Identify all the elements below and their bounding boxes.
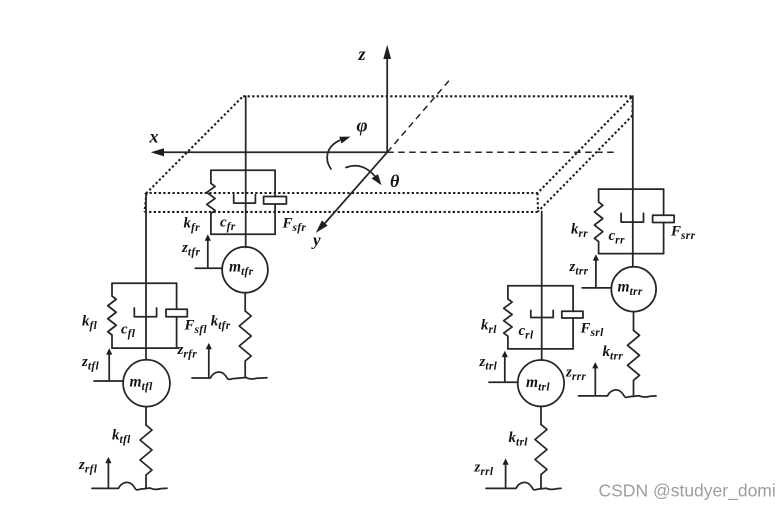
tire spring k_trr xyxy=(628,330,640,396)
strut rod fr xyxy=(245,96,247,247)
svg-text:ktfr: ktfr xyxy=(211,314,231,333)
plate bottom front edge xyxy=(145,211,539,213)
damper c_fl cup xyxy=(134,308,156,317)
bracket bottom bar fl xyxy=(112,347,179,349)
svg-text:Fsrr: Fsrr xyxy=(670,224,696,243)
svg-text:Fsfl: Fsfl xyxy=(184,318,208,337)
svg-text:cfr: cfr xyxy=(220,215,236,234)
svg-text:ztrr: ztrr xyxy=(569,259,589,278)
x axis xyxy=(151,148,387,156)
svg-text:y: y xyxy=(311,231,321,250)
plate right rear corner edge xyxy=(631,96,633,116)
tire rod rl xyxy=(540,407,542,424)
svg-text:ztrl: ztrl xyxy=(479,354,498,373)
mass m_tfr xyxy=(222,247,268,293)
svg-text:cfl: cfl xyxy=(121,322,136,341)
x axis hidden dashed extension xyxy=(387,151,614,153)
road fl xyxy=(92,482,167,489)
plate right bottom slant edge xyxy=(538,116,633,212)
bracket top bar rr xyxy=(599,188,664,190)
svg-text:crl: crl xyxy=(519,323,534,342)
mass m_trr xyxy=(611,267,656,312)
svg-text:CSDN @studyer_domi: CSDN @studyer_domi xyxy=(599,481,776,502)
y axis xyxy=(316,152,387,233)
road fr xyxy=(192,372,267,379)
svg-text:krr: krr xyxy=(571,222,588,241)
z_rrl arrow xyxy=(503,458,509,487)
svg-text:Fsrl: Fsrl xyxy=(580,321,605,340)
svg-text:Fsfr: Fsfr xyxy=(282,216,307,235)
damper c_fr cup xyxy=(234,195,256,203)
svg-text:φ: φ xyxy=(357,116,368,137)
svg-text:ztfr: ztfr xyxy=(181,240,200,259)
bracket bottom bar rr xyxy=(599,253,664,255)
pitch arrow theta xyxy=(346,166,382,186)
tire rod fl xyxy=(145,407,147,425)
plate top face (dotted parallelogram) xyxy=(147,96,633,193)
strut rod rr xyxy=(632,96,634,267)
tire spring k_tfl xyxy=(140,425,152,488)
actuator F_sfl xyxy=(166,283,187,348)
svg-text:ztfl: ztfl xyxy=(81,354,99,373)
svg-text:mtfl: mtfl xyxy=(130,374,154,394)
svg-text:kfr: kfr xyxy=(184,216,201,235)
road rl xyxy=(486,482,561,489)
svg-text:z: z xyxy=(358,44,366,64)
actuator F_sfr xyxy=(264,170,287,234)
actuator F_srr xyxy=(653,189,675,254)
svg-text:θ: θ xyxy=(390,171,400,191)
z_rfl arrow xyxy=(105,457,111,488)
plate left corner edge xyxy=(145,193,147,212)
z_rrr arrow xyxy=(592,362,598,395)
svg-text:krl: krl xyxy=(481,318,497,337)
svg-text:mtfr: mtfr xyxy=(229,259,254,279)
bracket top bar fl xyxy=(112,282,177,284)
svg-text:ktrr: ktrr xyxy=(603,344,624,363)
z_rfr arrow xyxy=(206,343,212,377)
bracket top bar fr xyxy=(211,169,275,171)
tire rod fr xyxy=(244,293,246,311)
svg-text:zrrl: zrrl xyxy=(474,460,494,479)
damper c_rl cup xyxy=(531,310,553,317)
road rr xyxy=(579,390,657,397)
z axis xyxy=(383,45,391,153)
svg-text:mtrr: mtrr xyxy=(618,279,643,299)
bracket bottom bar fr xyxy=(211,233,275,235)
strut rod fl xyxy=(145,193,147,359)
svg-text:ktrl: ktrl xyxy=(509,430,529,449)
svg-text:kfl: kfl xyxy=(82,314,98,333)
bracket top bar rl xyxy=(508,285,573,287)
z_trr arrow xyxy=(582,254,610,288)
svg-text:ktfl: ktfl xyxy=(112,428,131,447)
tire spring k_trl xyxy=(535,425,547,489)
mass m_tfl xyxy=(123,360,170,407)
svg-text:zrfr: zrfr xyxy=(177,342,198,361)
tire spring k_tfr xyxy=(239,311,251,378)
y axis dashed rear part xyxy=(387,80,450,153)
actuator F_srl xyxy=(562,286,583,349)
mass m_trl xyxy=(518,360,564,406)
svg-text:zrrr: zrrr xyxy=(565,365,586,384)
spring k_rr xyxy=(594,189,602,254)
bracket bottom bar rl xyxy=(508,348,573,350)
plate front right corner edge xyxy=(536,193,539,211)
spring k_rl xyxy=(504,286,512,349)
spring k_fr xyxy=(207,170,215,234)
z_tfl arrow xyxy=(94,348,123,381)
svg-text:x: x xyxy=(149,127,159,147)
z_tfr arrow xyxy=(195,234,221,268)
roll arrow phi xyxy=(327,137,350,169)
spring k_fl xyxy=(108,283,116,348)
strut rod rl xyxy=(541,212,543,360)
damper c_rr cup xyxy=(621,213,643,222)
z_trl arrow xyxy=(489,351,518,383)
tire rod rr xyxy=(633,312,635,330)
svg-text:crr: crr xyxy=(609,228,625,247)
svg-text:zrfl: zrfl xyxy=(78,457,98,476)
svg-text:mtrl: mtrl xyxy=(526,374,550,394)
